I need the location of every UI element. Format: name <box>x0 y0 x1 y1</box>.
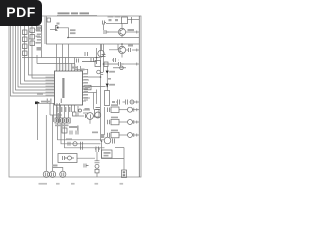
bottom bus wire 2 <box>61 124 101 144</box>
IC top pin labels <box>56 64 57 70</box>
wire C6-C7 link <box>123 101 126 103</box>
node dot C <box>103 63 105 65</box>
wire to connector P1 <box>45 115 47 171</box>
wire to IC pin 8 <box>29 26 55 75</box>
IC right pin wire 4 <box>83 82 87 84</box>
IC part number vertical text <box>62 78 64 98</box>
bottom connector P3 <box>122 170 127 178</box>
node dot D <box>96 57 98 59</box>
wire row A plug to frame <box>133 109 140 111</box>
bus wire y57 <box>22 57 100 59</box>
net label above COMPUT <box>37 93 43 95</box>
wire to connector P2 <box>52 115 54 171</box>
electrolytic cap cluster CE4 <box>70 131 78 135</box>
wire vertical x96 <box>96 90 98 105</box>
wire from relay column 1 to IC pin 6 <box>25 26 55 81</box>
IC left pin labels <box>46 77 55 79</box>
plug circle P4 <box>130 100 134 104</box>
node dot A <box>67 37 69 39</box>
bottom connector P1 <box>43 171 49 177</box>
wire harness line 1 to IC pin 1 <box>11 26 55 96</box>
wire to connector P3 upper <box>115 147 124 149</box>
wire crystal branch x94 <box>96 48 98 58</box>
plug circle P5 <box>120 66 124 70</box>
small box under badge <box>47 18 51 22</box>
plug circle row B <box>128 120 133 125</box>
wire row A cap lead <box>110 109 113 111</box>
capacitor C9 plates on x100 <box>101 73 103 75</box>
wire D1 label lead <box>109 71 113 73</box>
COMPUT label <box>41 101 50 103</box>
relay RL7 <box>30 41 35 46</box>
Q1 label <box>128 29 135 31</box>
transistor Q4 <box>87 113 94 120</box>
box B4 <box>62 128 67 133</box>
capacitor C1 <box>103 21 107 25</box>
wire oscillator to bars <box>77 157 95 159</box>
IC right pin wire 10 <box>83 100 87 102</box>
box B5 <box>95 169 99 173</box>
wire diode rail x107 <box>106 67 108 91</box>
IC top pin wire 1 <box>56 44 58 71</box>
wire connector P3 vertical <box>123 148 125 171</box>
capacitor C21 plates <box>95 161 100 163</box>
IC top pin wire 2 <box>59 58 61 72</box>
row plug end bars <box>133 108 135 137</box>
filter box FB1 row A <box>111 107 119 113</box>
wire long vertical x100 <box>100 44 102 141</box>
bus wire y29 stub <box>50 29 57 31</box>
title underline <box>57 14 97 17</box>
wire Q2 base lead <box>109 44 118 50</box>
lamp circle LP1 row1 <box>73 142 77 146</box>
footer text <box>39 183 124 185</box>
wire row C cap lead <box>110 134 113 136</box>
wire Q2 to C3 <box>126 49 128 51</box>
IC bottom pin wire 6 <box>74 105 76 112</box>
filter box FB3 row C <box>111 132 119 138</box>
wire D2 label lead <box>109 84 113 86</box>
relay RL1 <box>23 30 28 35</box>
PDF badge <box>0 0 42 26</box>
IC top pin wire 9 <box>80 66 82 71</box>
IC bottom pin wire 1 <box>56 105 58 118</box>
plug circle row A <box>128 107 133 112</box>
node small circle N2 <box>97 70 101 74</box>
wire Q3 bottom lead <box>101 56 103 58</box>
wire Q4 base lead <box>93 115 94 117</box>
IC bottom pin labels <box>57 107 58 112</box>
capacitor C16 row1 <box>68 142 70 146</box>
D1 D2 value labels <box>110 71 116 73</box>
node small circle N1 <box>79 109 82 112</box>
label box L1 <box>84 85 91 90</box>
IC right pin wire 6 <box>83 88 89 90</box>
plug circle row C <box>128 133 133 138</box>
diode D5 D6 labels <box>108 16 114 18</box>
capacitor C15 row C <box>108 133 110 138</box>
diode D2 <box>106 84 109 87</box>
double bar connector J1 <box>95 147 100 153</box>
bottom bus wire 1 <box>58 124 105 140</box>
capacitor C14 row B <box>108 120 110 125</box>
IC right pin wire 1 <box>83 73 87 75</box>
wire harness line 5 to IC pin 5 <box>21 26 55 84</box>
wire y23 right block <box>106 23 122 25</box>
tick near frame corner <box>131 17 133 24</box>
IC top pin wire 3 <box>62 44 64 71</box>
wire stub x57 <box>56 103 58 122</box>
node dot E <box>100 76 102 78</box>
IC right pin wire 2 <box>83 76 101 78</box>
wire Q1 collector to frame <box>126 31 139 33</box>
capacitor C7 <box>126 100 128 105</box>
IC right pin wire 3 <box>83 79 90 81</box>
IC right pin labels <box>84 73 89 75</box>
box B3 <box>95 110 100 118</box>
transistor Q3 <box>98 50 104 56</box>
Q2 label <box>128 45 133 47</box>
wire row A box to plug <box>119 109 128 111</box>
resistor R1 vertical box <box>105 91 110 106</box>
node dot H <box>101 140 103 142</box>
+12V label <box>70 29 76 31</box>
wire C3 to frame <box>132 49 139 51</box>
wire below IC y116 <box>76 115 84 117</box>
IC right pin wire 9 <box>83 97 91 99</box>
wire stub x53 <box>53 103 55 122</box>
capacitor C13 row A <box>108 108 110 113</box>
bus wire y63 <box>37 63 75 65</box>
connector K1 <box>56 26 58 31</box>
regulator box VR1 <box>102 150 113 158</box>
wire harness line 2 to IC pin 2 <box>13 26 55 93</box>
wire C5 to frame <box>124 63 139 65</box>
small box below IC <box>73 112 77 116</box>
IC top pin wire 5 <box>68 44 70 71</box>
connector K1 lead wire <box>59 28 69 38</box>
diode block DB1 <box>55 118 58 123</box>
capacitor C12 plates <box>91 58 94 62</box>
capacitor C20 <box>113 139 115 144</box>
bottom connector P2b <box>60 171 66 177</box>
wire row B box to plug <box>119 121 128 123</box>
capacitor C10 plates <box>85 52 88 56</box>
IC right pin wire 8 <box>83 94 87 96</box>
capacitor C19 marks <box>84 164 89 168</box>
IC top pin wire 8 <box>77 66 79 71</box>
capacitor C6 <box>118 100 120 105</box>
wire y115 <box>50 114 62 116</box>
bottom bus wire 3 <box>65 124 105 148</box>
capacitor C3 <box>129 48 131 52</box>
oscillator module box <box>58 154 77 163</box>
crystal X1 box <box>122 17 128 24</box>
wire Q1 base lead <box>109 31 118 33</box>
IC bottom pin wire 3 <box>64 105 66 118</box>
wire C6 lead <box>116 101 117 103</box>
node dot G <box>37 103 39 105</box>
wire row C box to plug <box>119 134 128 136</box>
wire C7 to frame <box>131 101 140 103</box>
bottom connector P2 <box>50 171 56 177</box>
misc labels <box>85 108 90 110</box>
relay RL4 <box>23 51 28 56</box>
wire vertical x104 <box>104 107 106 135</box>
capacitor C5 <box>119 62 125 66</box>
IC top pin wire 7 <box>74 58 76 72</box>
wire COMPUT vertical down <box>37 103 39 140</box>
connector K1 label <box>57 23 60 25</box>
diode block DB2 <box>59 118 62 123</box>
title text <box>58 12 90 14</box>
wire y68 to plug <box>113 67 126 69</box>
relay RL3 <box>23 44 28 49</box>
wire X1 to frame <box>128 19 140 21</box>
capacitor CE2 plates <box>96 108 101 110</box>
relay RL5 <box>30 28 35 33</box>
wire row C plug to frame <box>133 134 140 136</box>
capacitor C18 row2 <box>81 146 83 150</box>
relay RL6 <box>30 35 35 40</box>
motor circle M1 <box>104 137 111 144</box>
wire y64 left segment <box>104 63 119 65</box>
wire vertical x103 <box>103 44 105 72</box>
wire stub x50 <box>49 103 51 115</box>
wire y61 link <box>82 58 97 65</box>
wire double vertical x46.5 <box>46 17 48 45</box>
wire row B plug to frame <box>133 121 140 123</box>
wire double vertical x45 <box>44 17 46 45</box>
wire stub x59 <box>59 103 61 122</box>
wire from relay column 2 to IC pin 7 <box>32 26 55 78</box>
diode block DB4 <box>67 118 70 123</box>
wire Q1 verticals <box>121 24 123 38</box>
relay labels <box>36 29 41 31</box>
border frame <box>9 16 141 177</box>
filter box FB2 row B <box>111 119 119 125</box>
capacitor C8 plates <box>85 98 87 102</box>
IC top pin wire 4 <box>65 58 67 72</box>
bus wire y37 <box>68 37 139 39</box>
box B2 <box>104 62 108 67</box>
wire stack to border <box>96 173 98 177</box>
wire harness line 3 to IC pin 3 <box>16 26 55 90</box>
relay RL2 <box>23 37 28 42</box>
wire Q3 top lead <box>101 44 103 51</box>
wire below IC x78 <box>77 106 79 116</box>
frame inner right rail <box>138 16 140 177</box>
IC bottom pin wire 2 <box>60 105 62 118</box>
capacitor C4 <box>114 58 116 62</box>
capacitor C17 row1 <box>81 142 83 146</box>
wire Q4 emitter down <box>89 119 91 123</box>
T1 text column <box>37 34 42 36</box>
wire COMPUT to IC pin 9 <box>38 102 55 104</box>
node dot B <box>121 43 123 45</box>
wire row B cap lead <box>110 121 113 123</box>
IC right pin wire 5 <box>83 86 106 88</box>
connector arrow COMPUT <box>37 101 40 104</box>
IC bottom pin wire 5 <box>71 105 73 112</box>
box B1 <box>95 61 101 67</box>
label box T1 <box>37 26 42 32</box>
wire below IC y113 <box>83 112 88 114</box>
capacitor C11 plates <box>77 59 79 63</box>
transistor Q1 <box>118 28 125 35</box>
wire Q2 top lead <box>121 44 123 46</box>
IC right pin wire 7 <box>83 92 97 94</box>
wire vertical x93 <box>93 93 95 110</box>
frame entry tick marks <box>136 31 138 137</box>
electrolytic cap CE3 <box>95 112 101 118</box>
wire x97 stub <box>96 152 98 161</box>
electrolytic cap CE1 <box>102 55 106 57</box>
IC top pin wire 6 <box>71 64 73 72</box>
capacitor C2 <box>104 30 109 34</box>
wire jog to IC top right <box>75 69 88 74</box>
transistor Q2 <box>118 46 125 53</box>
IC bottom pin wire 4 <box>68 105 70 118</box>
wire stub y60 b <box>117 59 120 61</box>
wire harness line 4 to IC pin 4 <box>18 26 55 87</box>
wire battery loop <box>102 141 125 159</box>
lower wire labels <box>61 99 62 104</box>
op-amp U1 body (MCU IC) <box>55 71 83 105</box>
wire below IC y110 <box>83 109 90 111</box>
wire vertical x41 <box>41 26 43 58</box>
bus wire y44 <box>46 43 139 45</box>
diode block DB3 <box>63 118 66 123</box>
electrolytic cap CE5 <box>95 164 99 168</box>
wire Q2 bottom lead <box>121 54 123 58</box>
wire stub y60 a <box>112 59 113 61</box>
wire x37 down <box>36 55 38 64</box>
wire to connector P2b <box>53 168 63 172</box>
diode D1 <box>106 71 109 74</box>
node dot F <box>107 86 109 88</box>
wire C2 top lead <box>103 24 105 31</box>
